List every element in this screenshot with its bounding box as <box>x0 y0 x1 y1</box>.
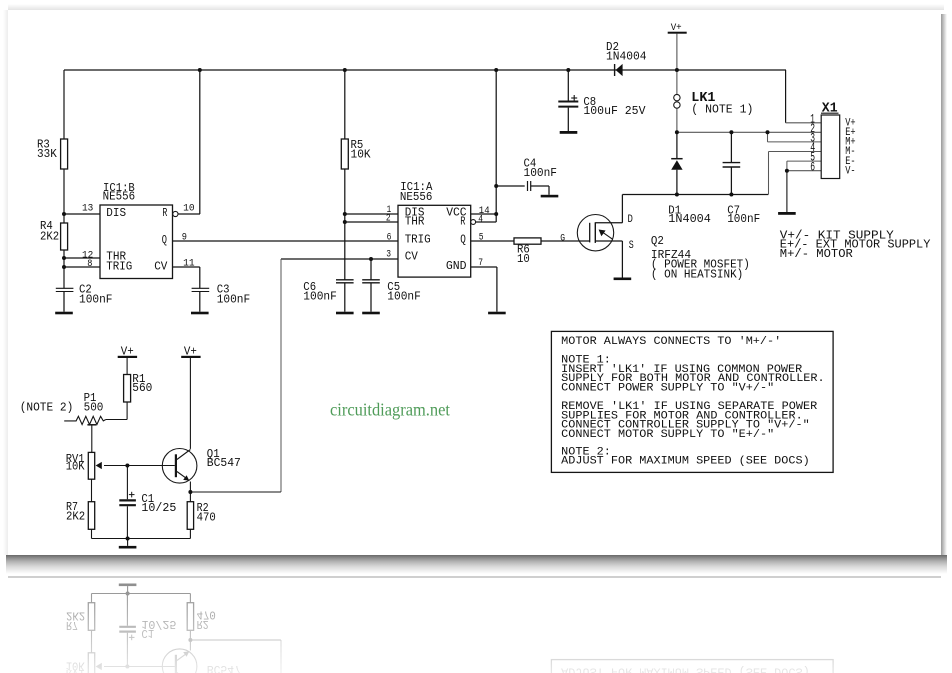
svg-text:2K2: 2K2 <box>66 511 85 524</box>
svg-text:10K: 10K <box>351 149 371 162</box>
svg-text:TRIG: TRIG <box>405 233 431 246</box>
svg-text:MOTOR ALWAYS CONNECTS TO 'M+/-: MOTOR ALWAYS CONNECTS TO 'M+/-' <box>561 336 781 348</box>
svg-text:5: 5 <box>479 232 484 243</box>
svg-text:CONNECT MOTOR SUPPLY TO "E+/-": CONNECT MOTOR SUPPLY TO "E+/-" <box>561 429 774 441</box>
svg-text:7: 7 <box>478 258 483 269</box>
svg-text:TRIG: TRIG <box>106 260 132 273</box>
svg-text:8: 8 <box>87 259 92 270</box>
svg-text:2K2: 2K2 <box>40 231 59 244</box>
svg-text:( NOTE 1): ( NOTE 1) <box>691 104 753 117</box>
svg-text:33K: 33K <box>37 148 57 161</box>
svg-text:D: D <box>628 214 634 226</box>
svg-text:M+/- MOTOR: M+/- MOTOR <box>780 248 853 261</box>
svg-text:13: 13 <box>82 203 93 214</box>
svg-text:S: S <box>629 240 634 252</box>
svg-text:9: 9 <box>182 232 187 243</box>
svg-text:CONNECT POWER SUPPLY TO "V+/-": CONNECT POWER SUPPLY TO "V+/-" <box>561 382 774 394</box>
svg-text:X1: X1 <box>822 101 838 117</box>
svg-text:ADJUST FOR MAXIMUM SPEED (SEE: ADJUST FOR MAXIMUM SPEED (SEE DOCS) <box>561 456 810 468</box>
svg-text:V-: V- <box>845 165 855 177</box>
svg-text:CV: CV <box>405 251 418 264</box>
svg-text:V+: V+ <box>121 346 134 359</box>
svg-text:G: G <box>560 234 565 245</box>
svg-text:R: R <box>162 207 167 220</box>
svg-text:2: 2 <box>386 214 391 225</box>
svg-text:500: 500 <box>84 402 104 415</box>
svg-text:100nF: 100nF <box>727 213 760 226</box>
svg-text:Q: Q <box>460 233 466 246</box>
svg-text:100nF: 100nF <box>387 290 421 303</box>
svg-text:R: R <box>460 215 465 228</box>
svg-text:BC547: BC547 <box>207 457 241 470</box>
svg-text:CV: CV <box>154 260 167 273</box>
svg-text:DIS: DIS <box>106 207 126 220</box>
svg-text:NE556: NE556 <box>103 191 136 204</box>
svg-text:V+: V+ <box>184 346 197 359</box>
svg-text:6: 6 <box>810 159 815 174</box>
svg-text:10: 10 <box>183 203 195 214</box>
svg-text:THR: THR <box>405 215 425 228</box>
svg-text:circuitdiagram.net: circuitdiagram.net <box>330 400 450 420</box>
svg-text:(NOTE 2): (NOTE 2) <box>20 402 74 415</box>
svg-text:6: 6 <box>387 232 392 243</box>
svg-text:100nF: 100nF <box>217 293 251 306</box>
svg-text:100nF: 100nF <box>524 167 558 180</box>
svg-text:1N4004: 1N4004 <box>606 50 647 63</box>
svg-text:GND: GND <box>446 260 467 273</box>
svg-text:100nF: 100nF <box>303 290 337 303</box>
svg-text:100uF 25V: 100uF 25V <box>583 105 645 118</box>
svg-text:470: 470 <box>197 511 216 524</box>
svg-text:( ON HEATSINK): ( ON HEATSINK) <box>651 268 743 281</box>
svg-text:1N4004: 1N4004 <box>668 213 711 226</box>
svg-text:10/25: 10/25 <box>141 502 176 515</box>
svg-text:10K: 10K <box>66 461 85 474</box>
svg-text:11: 11 <box>183 259 195 270</box>
svg-text:3: 3 <box>386 250 391 261</box>
svg-text:100nF: 100nF <box>79 293 113 306</box>
svg-text:Q2: Q2 <box>651 235 664 248</box>
svg-text:Q: Q <box>162 234 167 247</box>
svg-text:560: 560 <box>132 382 152 395</box>
svg-text:10: 10 <box>517 253 530 266</box>
svg-text:V+: V+ <box>671 23 682 34</box>
svg-text:NE556: NE556 <box>400 191 433 204</box>
svg-text:4: 4 <box>478 214 483 225</box>
